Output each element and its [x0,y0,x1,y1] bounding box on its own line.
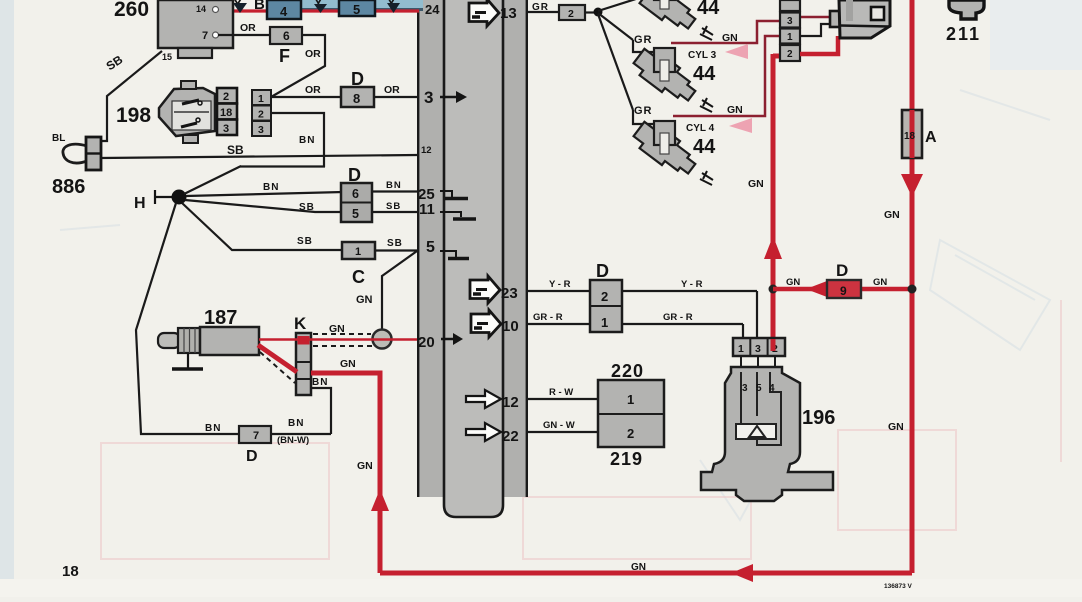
svg-text:24: 24 [425,2,440,17]
svg-text:1: 1 [355,246,361,258]
svg-text:44: 44 [693,63,716,85]
svg-text:BN: BN [205,423,221,434]
svg-text:3: 3 [742,383,748,394]
svg-text:GN: GN [873,277,887,288]
svg-text:3: 3 [787,16,793,27]
svg-text:SB: SB [227,143,244,157]
svg-text:13: 13 [500,5,517,22]
svg-text:5: 5 [426,239,435,256]
svg-text:886: 886 [52,176,85,198]
svg-text:211: 211 [946,24,981,44]
svg-text:GN: GN [786,277,800,288]
svg-text:6: 6 [283,29,290,43]
svg-text:1: 1 [627,392,634,407]
svg-text:K: K [294,314,307,333]
svg-text:198: 198 [116,104,151,127]
svg-text:1: 1 [787,32,793,43]
svg-text:7: 7 [202,30,208,42]
svg-text:BN: BN [263,182,279,193]
svg-text:22: 22 [502,428,519,445]
svg-text:C: C [352,267,365,287]
svg-text:R - W: R - W [549,387,573,398]
svg-text:GN: GN [884,209,900,221]
svg-text:1: 1 [738,343,744,355]
svg-text:8: 8 [353,91,360,106]
svg-text:OR: OR [305,84,321,96]
svg-text:9: 9 [840,284,847,298]
svg-text:2: 2 [568,8,574,20]
svg-text:136873 V: 136873 V [884,583,912,590]
svg-text:20: 20 [418,334,435,351]
svg-text:GN: GN [888,421,904,433]
svg-text:Y - R: Y - R [681,279,703,290]
svg-text:BN: BN [288,418,304,429]
svg-text:H: H [134,195,146,212]
svg-text:2: 2 [258,109,264,121]
svg-text:44: 44 [697,0,720,19]
svg-text:F: F [279,46,290,66]
svg-text:OR: OR [305,48,321,60]
svg-text:GN: GN [631,562,646,573]
svg-text:GN: GN [722,32,738,44]
svg-text:GR - R: GR - R [533,312,563,323]
svg-text:5: 5 [756,383,762,394]
svg-text:5: 5 [352,207,359,221]
svg-text:BN: BN [299,135,315,146]
svg-text:GN: GN [340,358,356,370]
svg-text:GN: GN [748,178,764,190]
svg-text:CYL 4: CYL 4 [686,123,715,134]
svg-text:D: D [836,261,848,280]
svg-text:219: 219 [610,449,643,469]
svg-text:3: 3 [223,123,229,135]
svg-text:4: 4 [280,4,288,19]
svg-text:GR: GR [634,34,653,46]
svg-text:A: A [925,129,937,146]
svg-text:SB: SB [386,201,401,212]
svg-text:GN: GN [356,294,373,306]
svg-text:23: 23 [501,285,518,302]
svg-text:10: 10 [502,318,519,335]
svg-text:2: 2 [787,49,793,60]
svg-text:B: B [254,0,265,13]
svg-text:BN: BN [386,180,402,191]
svg-text:18: 18 [220,107,232,119]
svg-text:GR - R: GR - R [663,312,693,323]
svg-text:18: 18 [904,131,916,142]
svg-text:GN - W: GN - W [543,420,575,431]
svg-text:220: 220 [611,361,644,381]
svg-text:14: 14 [196,4,206,14]
svg-text:3: 3 [258,124,264,136]
svg-text:5: 5 [353,2,360,17]
svg-text:3: 3 [424,88,433,107]
svg-text:196: 196 [802,407,835,429]
svg-text:2: 2 [627,426,634,441]
svg-text:(BN-W): (BN-W) [277,435,309,446]
svg-text:2: 2 [601,289,608,304]
svg-text:OR: OR [240,22,256,34]
svg-text:D: D [246,448,258,465]
svg-text:1: 1 [258,93,264,105]
svg-text:SB: SB [297,236,313,247]
svg-text:18: 18 [62,563,79,580]
svg-text:Y - R: Y - R [549,279,571,290]
svg-text:BL: BL [52,133,65,144]
svg-text:1: 1 [601,315,608,330]
svg-text:15: 15 [162,52,172,62]
svg-text:4: 4 [769,383,775,394]
svg-text:44: 44 [693,136,716,158]
svg-text:CYL 3: CYL 3 [688,50,717,61]
svg-text:BN: BN [312,377,328,388]
svg-text:GR: GR [634,105,653,117]
svg-text:6: 6 [352,187,359,201]
svg-text:187: 187 [204,307,237,329]
svg-text:GN: GN [357,460,373,472]
svg-text:OR: OR [384,84,400,96]
svg-text:3: 3 [755,343,761,355]
svg-text:SB: SB [299,202,315,213]
svg-text:2: 2 [223,91,229,103]
svg-text:GN: GN [329,323,345,335]
svg-text:12: 12 [502,394,519,411]
svg-text:7: 7 [253,430,259,442]
svg-text:260: 260 [114,0,149,21]
svg-text:12: 12 [421,145,432,156]
svg-text:D: D [596,261,609,281]
svg-text:SB: SB [387,238,403,249]
svg-text:GN: GN [727,104,743,116]
svg-text:11: 11 [419,201,435,218]
